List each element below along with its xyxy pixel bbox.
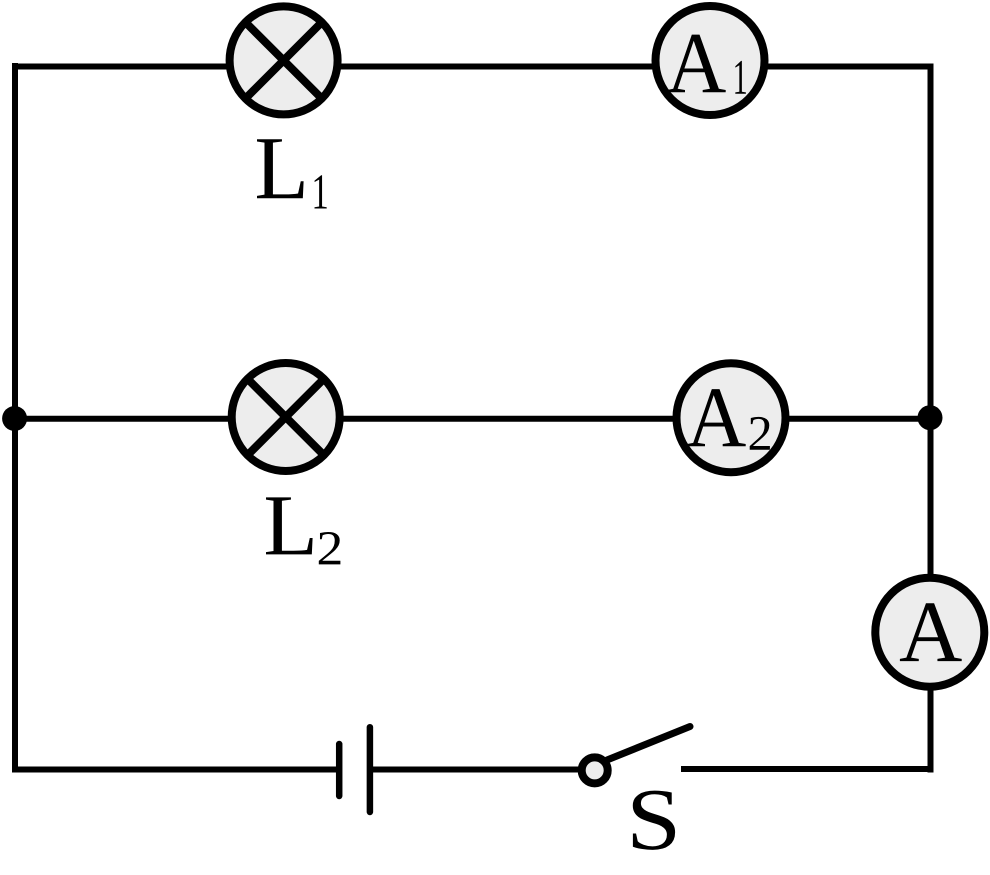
lamp L2 — [232, 363, 340, 471]
switch S: pivot contact — [582, 757, 608, 783]
battery cell: short plate (negative) — [336, 744, 343, 796]
wire: bottom left segment — [12, 767, 337, 773]
wire: middle branch horizontal — [12, 416, 934, 422]
wire: top branch horizontal — [12, 64, 934, 70]
ammeter A1 — [656, 6, 765, 115]
battery cell: long plate (positive) — [367, 727, 374, 812]
wire: left vertical — [12, 63, 18, 773]
wire: bottom right segment (switch to right vertical) — [681, 766, 934, 772]
wire: bottom middle segment (battery to switch pivot) — [372, 767, 595, 773]
junction dot right (node) — [918, 405, 943, 430]
lamp L1 — [230, 6, 338, 114]
label L1 — [257, 139, 327, 208]
wire: right vertical — [928, 64, 934, 773]
junction dot left (node) — [2, 406, 27, 431]
ammeter A (main) — [875, 578, 984, 687]
switch S: lever arm — [607, 727, 690, 761]
label S — [633, 791, 675, 850]
ammeter A2 — [677, 363, 786, 472]
label L2 — [266, 497, 340, 564]
